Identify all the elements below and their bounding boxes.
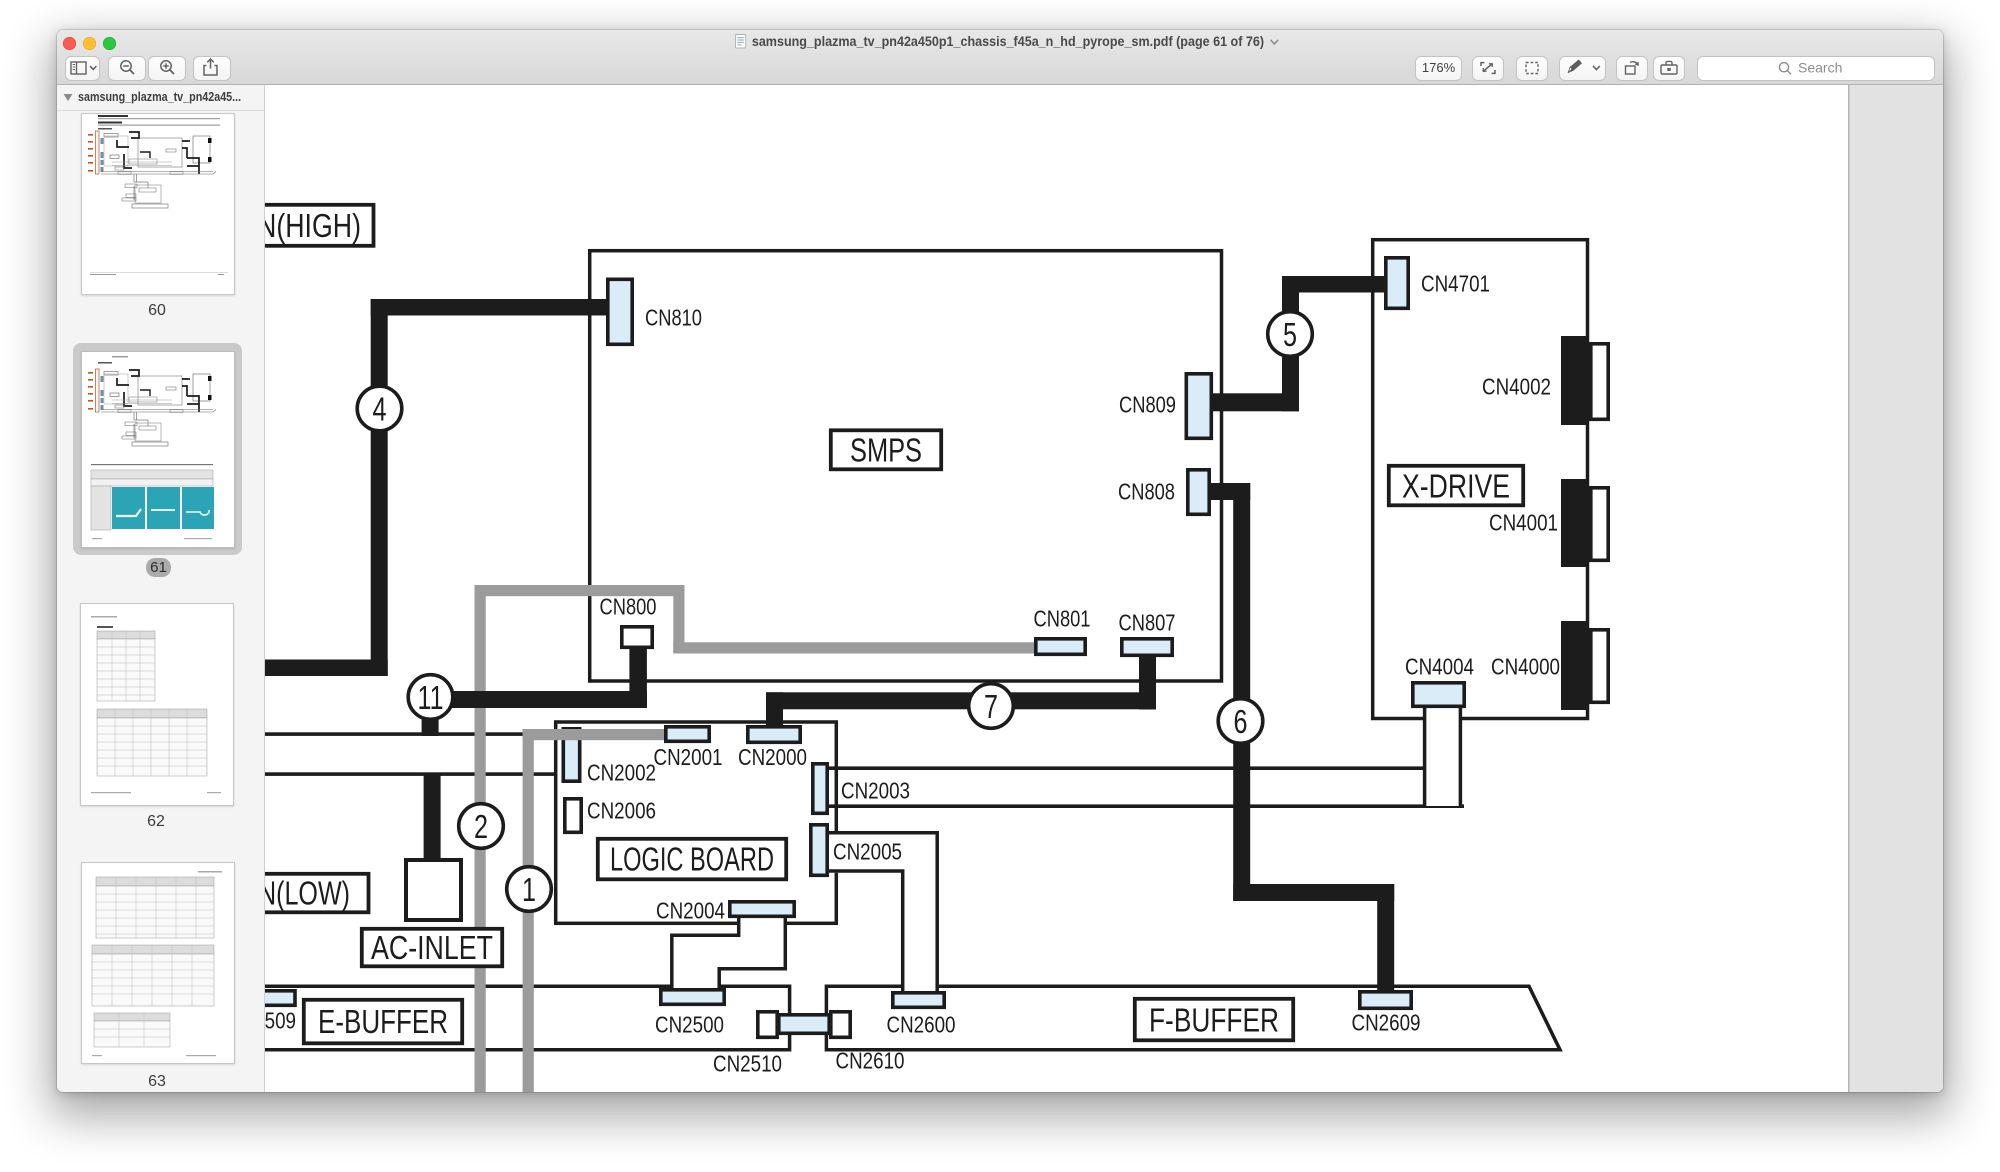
label CN810 [645, 304, 702, 330]
ribbon cable CN2004 to CN2500 [671, 915, 788, 989]
label CN2005 [833, 838, 902, 864]
CN2003 ribbon top line [827, 766, 1426, 770]
svg-text:CN2610: CN2610 [836, 1047, 905, 1073]
main content [265, 85, 1943, 1092]
connector CN2003 [813, 764, 827, 814]
label box X-DRIVE [1389, 466, 1523, 506]
gray cable 2 elbow down [673, 585, 684, 654]
right controls [1415, 56, 1462, 81]
svg-text:CN2002: CN2002 [587, 759, 656, 785]
svg-text:CN807: CN807 [1119, 609, 1176, 635]
wire 4 lower horizontal [264, 660, 388, 677]
svg-text:CN4701: CN4701 [1421, 270, 1490, 296]
svg-text:CN2004: CN2004 [656, 897, 725, 923]
connector CN808 [1188, 470, 1209, 515]
thumbnail page 60 [81, 113, 235, 295]
svg-text:CN2001: CN2001 [654, 744, 723, 770]
label CN2003 [841, 777, 910, 803]
connector CN801 [1036, 639, 1085, 655]
connector CN807 [1122, 639, 1172, 656]
AC-INLET component box [406, 860, 461, 920]
svg-text:CN2006: CN2006 [587, 797, 656, 823]
circle 4 [357, 386, 402, 431]
label CN4002 [1482, 373, 1551, 399]
label box F-BUFFER [1135, 999, 1293, 1041]
connector CN2609 [1360, 992, 1411, 1009]
svg-text:CN810: CN810 [645, 304, 702, 330]
wire 6 lower horizontal [1233, 884, 1394, 901]
connector CN4002 [1561, 336, 1608, 425]
label CN4000 [1491, 653, 1560, 679]
label CN808 [1118, 478, 1175, 504]
label CN4001 [1489, 509, 1558, 535]
svg-text:CN800: CN800 [600, 593, 657, 619]
connector CN2004 [730, 902, 794, 917]
connector CN2509 (clipped by sidebar) [240, 991, 295, 1006]
circle 6 [1218, 699, 1263, 744]
wire 5 vertical [1282, 276, 1299, 411]
svg-text:CN4004: CN4004 [1405, 653, 1474, 679]
label CN2610 [836, 1047, 905, 1073]
svg-text:CN808: CN808 [1118, 478, 1175, 504]
wire 4 vertical [371, 299, 388, 676]
connector CN809 [1186, 374, 1211, 439]
svg-text:CN2509: CN2509 [265, 1007, 296, 1033]
gray cable 2 horizontal to CN801 [673, 642, 1036, 653]
wire 6 vertical [1233, 483, 1250, 901]
connector CN800 [622, 627, 652, 648]
page background right gray area [1848, 85, 1943, 1092]
connector CN4000 [1561, 621, 1608, 710]
gray cable 1 horizontal to CN2001 [523, 729, 666, 740]
label box AC-INLET [362, 929, 502, 967]
label box SMPS [831, 430, 941, 469]
connector CN2000 [748, 727, 800, 743]
svg-text:F-BUFFER: F-BUFFER [1149, 1002, 1279, 1039]
wire 5 stub from CN809 [1213, 393, 1299, 411]
svg-text:Search: Search [1798, 60, 1842, 76]
circle 2 [459, 804, 504, 849]
connector CN2510 left shell [758, 1012, 777, 1038]
svg-text:CN2510: CN2510 [713, 1050, 782, 1076]
thumbnail page 62 [80, 603, 234, 806]
label CN4701 [1421, 270, 1490, 296]
svg-text:CN4002: CN4002 [1482, 373, 1551, 399]
connector CN2500 [661, 990, 724, 1005]
wire 6 stub from CN808 [1211, 483, 1250, 500]
thumbnail page 63 [81, 862, 235, 1064]
connector CN2001 [666, 727, 709, 742]
wire 7 horizontal [766, 692, 1156, 709]
svg-text:4: 4 [373, 391, 387, 428]
svg-text:AC-INLET: AC-INLET [371, 929, 493, 966]
ribbon cable CN2005 to CN2600 [827, 831, 939, 992]
connector CN810 [608, 279, 632, 344]
wire 5 horizontal to CN4701 [1282, 276, 1384, 293]
svg-text:2: 2 [474, 808, 488, 845]
svg-text:N(HIGH): N(HIGH) [265, 207, 361, 244]
label CN2000 [738, 744, 807, 770]
gray cable 1 vertical (circle 1) [523, 729, 534, 1092]
connector CN4004 [1413, 683, 1464, 707]
connector CN2510 barbell bar [779, 1015, 829, 1034]
circle 11 [408, 675, 453, 720]
circle 1 [507, 867, 552, 912]
wire harness thin line A [264, 732, 564, 736]
svg-text:CN2003: CN2003 [841, 777, 910, 803]
thumbnails [57, 84, 264, 86]
SMPS board outline [590, 251, 1222, 681]
svg-text:X-DRIVE: X-DRIVE [1402, 468, 1510, 505]
label CN2004 [656, 897, 725, 923]
svg-text:SMPS: SMPS [850, 432, 922, 469]
circle 5 [1268, 312, 1313, 357]
label box LOGIC BOARD [598, 839, 786, 880]
sidebar [57, 85, 265, 1092]
wire harness thin line B [264, 772, 556, 776]
label CN2600 [887, 1011, 956, 1037]
LOGIC BOARD outline [556, 722, 837, 923]
wire 7 drop to CN2000 [766, 692, 783, 729]
label CN2500 [655, 1011, 724, 1037]
thumbnail page 61 (selected) [73, 343, 242, 555]
wire 7 stub from CN807 [1139, 655, 1156, 710]
wire 11 stub to harness [422, 712, 439, 736]
label CN2510 [713, 1050, 782, 1076]
label CN807 [1119, 609, 1176, 635]
X-DRIVE board outline [1373, 240, 1588, 719]
svg-text:CN2600: CN2600 [887, 1011, 956, 1037]
svg-text:CN4000: CN4000 [1491, 653, 1560, 679]
connector CN2600 [893, 993, 944, 1008]
connector CN2002 (under gray cable) [563, 729, 579, 781]
label box N(HIGH) [230, 205, 374, 246]
gray cable 2 vertical (circle 2) [475, 585, 486, 1092]
label CN2006 [587, 797, 656, 823]
connector CN2006 [565, 799, 581, 833]
connector CN4001 [1561, 479, 1608, 567]
svg-text:CN2000: CN2000 [738, 744, 807, 770]
svg-text:CN2609: CN2609 [1352, 1009, 1421, 1035]
label CN801 [1034, 605, 1091, 631]
label CN800 [600, 593, 657, 619]
label CN2001 [654, 744, 723, 770]
svg-text:11: 11 [418, 679, 444, 716]
svg-text:CN809: CN809 [1119, 391, 1176, 417]
svg-text:E-BUFFER: E-BUFFER [318, 1003, 448, 1040]
wire stub harness to AC-INLET [424, 774, 441, 861]
wire 6 drop to CN2609 [1377, 884, 1394, 992]
wire 11 stub from CN800 [629, 648, 647, 708]
label CN2609 [1352, 1009, 1421, 1035]
label CN4004 [1405, 653, 1474, 679]
svg-text:CN2005: CN2005 [833, 838, 902, 864]
E-BUFFER board strip [264, 986, 790, 1050]
left buttons [65, 56, 100, 81]
wire 11 horizontal [431, 691, 647, 708]
wire 4 horizontal to CN810 [371, 299, 608, 316]
svg-text:5: 5 [1283, 316, 1297, 353]
circle 7 [969, 684, 1014, 729]
svg-text:7: 7 [984, 688, 998, 725]
svg-text:1: 1 [522, 871, 536, 908]
label CN809 [1119, 391, 1176, 417]
connector CN2610 right shell [831, 1012, 850, 1038]
svg-text:LOGIC BOARD: LOGIC BOARD [610, 841, 774, 878]
CN2003 ribbon bottom line [827, 804, 1464, 808]
title bar [57, 30, 1943, 85]
svg-text:CN4001: CN4001 [1489, 509, 1558, 535]
svg-text:CN2500: CN2500 [655, 1011, 724, 1037]
label CN2509 (clipped) [227, 1007, 296, 1033]
label CN2002 [587, 759, 656, 785]
connector CN2005 [811, 825, 827, 876]
label box E-BUFFER [304, 1000, 462, 1044]
connector CN4701 [1386, 258, 1408, 309]
gray cable 2 upper horizontal [475, 585, 685, 596]
svg-text:N(LOW): N(LOW) [265, 875, 350, 912]
ribbon cable CN4004 down [1425, 707, 1461, 806]
svg-text:6: 6 [1234, 703, 1248, 740]
label box N(LOW) [230, 874, 369, 913]
F-BUFFER board strip [826, 986, 1560, 1050]
svg-text:CN801: CN801 [1034, 605, 1091, 631]
